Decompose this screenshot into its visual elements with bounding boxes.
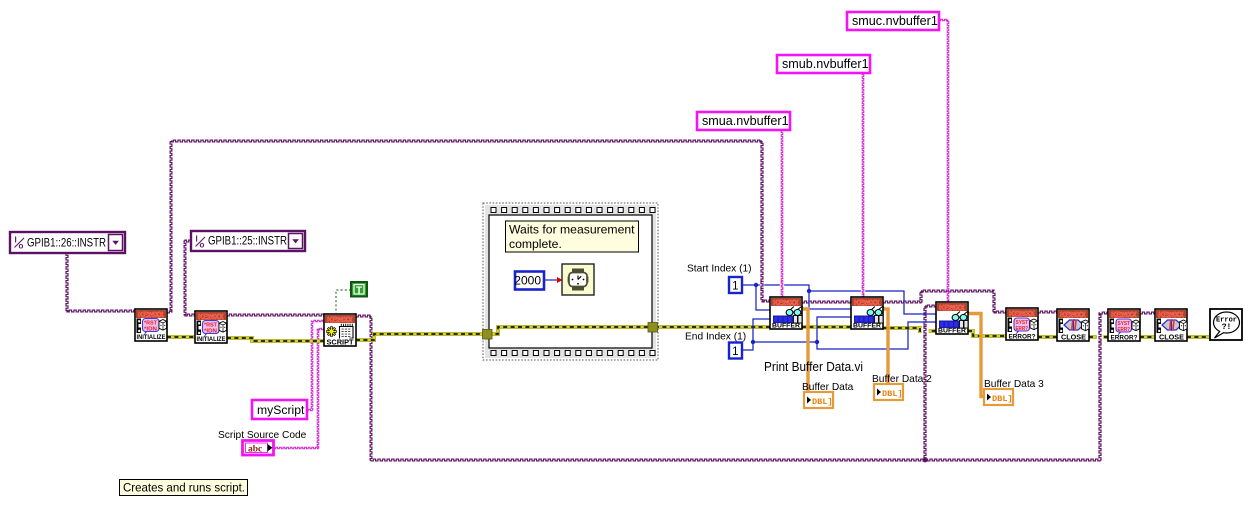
wire VISA INITIALIZE1 out up over to BUFFER1 <box>167 140 770 313</box>
crossing gap string over blue at 782,285 <box>780 282 784 288</box>
svg-text:KE26XX: KE26XX <box>328 315 353 324</box>
svg-text:KE26XX: KE26XX <box>199 312 224 321</box>
svg-text:GPIB1::26::INSTR: GPIB1::26::INSTR <box>27 236 106 250</box>
svg-text:BUFFER: BUFFER <box>938 328 966 335</box>
svg-text:smub.nvbuffer1: smub.nvbuffer1 <box>782 57 869 71</box>
svg-text:BUFFER: BUFFER <box>772 323 800 330</box>
svg-text:Start Index (1): Start Index (1) <box>687 264 752 275</box>
svg-text:ERROR?: ERROR? <box>1111 335 1138 342</box>
junction end index C <box>751 340 755 344</box>
svg-text:DBL]: DBL] <box>882 389 903 399</box>
wire DBL BUFFER1 to Buffer Data <box>802 309 808 392</box>
wire numeric end index rail <box>741 319 770 350</box>
string constant smub.nvbuffer1 <box>777 55 870 73</box>
svg-text:Print Buffer Data.vi: Print Buffer Data.vi <box>764 359 863 374</box>
free label creates and runs script <box>120 480 248 496</box>
svg-text:abc: abc <box>248 445 262 455</box>
svg-text:End Index (1): End Index (1) <box>685 332 746 343</box>
svg-text:*IDN: *IDN <box>144 327 157 333</box>
sequence tunnel right <box>648 323 658 333</box>
svg-text:T: T <box>356 286 362 297</box>
numeric constant 1 end <box>729 343 742 359</box>
svg-text:myScript: myScript <box>257 403 305 417</box>
svg-text:CLOSE: CLOSE <box>1159 335 1184 342</box>
crossing gap purple over error at 925 <box>922 328 929 336</box>
junction VISA rail <box>923 458 928 463</box>
string constant myScript <box>252 400 307 419</box>
wire error CLOSE1 to ERROR?2 <box>1089 335 1108 339</box>
VI KE26XX BUFFER 1 <box>770 297 802 329</box>
svg-text:2000: 2000 <box>514 274 541 288</box>
sequence tunnel left <box>483 330 493 340</box>
VI KE26XX ERROR? 2 <box>1108 309 1140 341</box>
wire VISA BUFFER1 to BUFFER2 <box>802 301 851 303</box>
wire VISA branch rail up to BUFFER3 <box>924 305 936 460</box>
crossing gap string over blue at 863,291 <box>861 288 865 294</box>
wire VISA GPIB25 to INITIALIZE2 <box>184 240 195 316</box>
junction start index A <box>754 283 758 287</box>
svg-text:ERR?: ERR? <box>1118 327 1131 333</box>
svg-text:?!: ?! <box>1222 323 1232 332</box>
wire error ERROR?2 to CLOSE2 <box>1140 335 1155 339</box>
VI KE26XX BUFFER 3 <box>936 302 968 334</box>
wire error INITIALIZE1 to INITIALIZE2 <box>167 335 195 339</box>
wire error BUFFER1 to BUFFER2 <box>802 325 851 329</box>
svg-text:GPIB1::25::INSTR: GPIB1::25::INSTR <box>208 234 287 248</box>
flat sequence structure frame <box>483 203 658 360</box>
junction end index D <box>815 340 819 344</box>
svg-text:KE26XX: KE26XX <box>1112 310 1137 319</box>
VISA constant GPIB1::25::INSTR <box>191 231 305 251</box>
svg-text:KE26XX: KE26XX <box>139 310 164 319</box>
wire error INITIALIZE2 to SCRIPT <box>227 338 324 341</box>
numeric constant 2000 <box>515 272 544 290</box>
svg-text:*IDN: *IDN <box>204 329 217 335</box>
svg-text:CLOSE: CLOSE <box>1061 335 1086 342</box>
wire boolean T to SCRIPT <box>336 290 351 313</box>
wire error ERROR?1 to CLOSE1 <box>1038 335 1057 339</box>
wire string script source to SCRIPT <box>274 328 324 449</box>
free label waits for measurement <box>506 221 639 252</box>
wire VISA ERROR?2 to CLOSE2 <box>1140 312 1155 314</box>
indicator Buffer Data 3 DBL <box>984 389 1013 405</box>
wire DBL BUFFER2 to Buffer Data 2 <box>883 309 888 384</box>
wire error SCRIPT to sequence tunnel <box>356 334 486 340</box>
simple error handler Error?! <box>1210 309 1242 340</box>
indicator Buffer Data 2 DBL <box>874 384 903 400</box>
svg-text:ERROR?: ERROR? <box>1009 334 1036 341</box>
svg-text:I: I <box>15 236 17 245</box>
svg-text:Creates and runs script.: Creates and runs script. <box>123 481 245 495</box>
svg-text:1: 1 <box>732 281 738 293</box>
VI KE26XX ERROR? 1 <box>1006 308 1038 340</box>
numeric constant 1 start <box>729 277 742 293</box>
VI KE26XX INITIALIZE 2 <box>195 311 227 343</box>
svg-text:KE26XX: KE26XX <box>774 298 799 307</box>
wire string myScript to SCRIPT <box>307 320 324 411</box>
svg-text:ERR?: ERR? <box>1016 326 1029 332</box>
string control abc <box>243 441 274 456</box>
svg-text:KE26XX: KE26XX <box>855 298 880 307</box>
wire VISA ERROR?1 to CLOSE1 <box>1038 311 1057 313</box>
svg-text:KE26XX: KE26XX <box>1010 309 1035 318</box>
wire VISA BUFFER2 to ERROR?1 <box>883 290 1006 313</box>
svg-text:INITIALIZE: INITIALIZE <box>137 334 166 341</box>
svg-text:INITIALIZE: INITIALIZE <box>197 336 226 343</box>
svg-text:DBL]: DBL] <box>812 397 833 407</box>
string constant smua.nvbuffer1 <box>697 112 790 130</box>
VI KE26XX INITIALIZE 1 <box>135 309 167 341</box>
svg-text:1: 1 <box>732 346 738 358</box>
VI KE26XX CLOSE 1 <box>1057 309 1089 341</box>
string constant smuc.nvbuffer1 <box>847 12 939 30</box>
svg-text:KE26XX: KE26XX <box>940 303 965 312</box>
wire string smuc to BUFFER3 <box>939 19 949 302</box>
wire error BUFFER3 to ERROR?1 <box>968 331 1006 336</box>
wire DBL BUFFER3 to Buffer Data 3 <box>968 314 985 397</box>
wire VISA GPIB26 to INITIALIZE1 <box>66 253 135 312</box>
indicator Buffer Data DBL <box>804 392 833 408</box>
wire string smub to BUFFER2 <box>862 73 864 297</box>
svg-text:smua.nvbuffer1: smua.nvbuffer1 <box>702 114 789 128</box>
svg-text:KE26XX: KE26XX <box>1159 310 1184 319</box>
junction start index B <box>807 289 811 293</box>
VI KE26XX CLOSE 2 <box>1155 309 1187 341</box>
wire string smua to BUFFER1 <box>781 131 783 297</box>
svg-text:smuc.nvbuffer1: smuc.nvbuffer1 <box>852 14 938 28</box>
wait (ms) function <box>562 264 594 295</box>
svg-text:I: I <box>196 235 198 244</box>
wire numeric start index rail <box>742 285 770 310</box>
wire error sequence to BUFFER1 <box>655 325 770 329</box>
VI KE26XX BUFFER 2 <box>851 297 883 329</box>
VI KE26XX SCRIPT <box>324 314 356 346</box>
wire VISA INITIALIZE2 to SCRIPT <box>227 314 324 316</box>
svg-text:complete.: complete. <box>509 237 562 251</box>
wire numeric 2000 to wait <box>544 279 557 281</box>
svg-text:Waits for measurement: Waits for measurement <box>509 223 635 237</box>
svg-text:KE26XX: KE26XX <box>1061 310 1086 319</box>
crossing gap purple over error at 1100 <box>1097 333 1104 341</box>
wire error CLOSE2 to error handler <box>1187 335 1210 339</box>
svg-text:BUFFER: BUFFER <box>853 323 881 330</box>
svg-text:SCRIPT: SCRIPT <box>327 340 355 347</box>
VISA constant GPIB1::26::INSTR <box>10 232 125 253</box>
wire VISA SCRIPT down bottom rail to ERROR?2 <box>356 312 1108 461</box>
boolean constant True <box>351 282 367 297</box>
crossing gap purple over blue at 762,285 <box>760 282 764 288</box>
wire error BUFFER2 to BUFFER3 <box>883 328 936 331</box>
svg-text:DBL]: DBL] <box>992 394 1013 404</box>
wire error inside sequence <box>490 327 651 334</box>
